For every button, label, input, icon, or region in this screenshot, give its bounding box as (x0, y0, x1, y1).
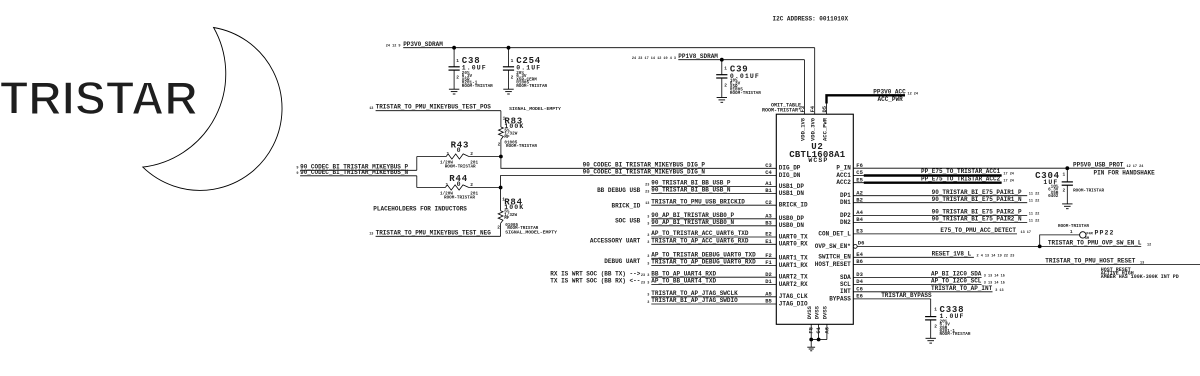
svg-text:UART2_TX: UART2_TX (779, 274, 808, 281)
svg-text:AP_TO_I2C0_SCL: AP_TO_I2C0_SCL (931, 278, 982, 285)
svg-text:23 3: 23 3 (641, 274, 649, 278)
svg-text:C2: C2 (765, 199, 772, 206)
svg-text:SCL: SCL (840, 281, 851, 288)
svg-text:ROOM-TRISTAR: ROOM-TRISTAR (516, 84, 547, 89)
svg-text:90_TRISTAR_BI_E75_PAIR2_P: 90_TRISTAR_BI_E75_PAIR2_P (932, 209, 1022, 216)
pin D2 UART2_TX (651, 276, 776, 278)
svg-text:ROOM-TRISTAR: ROOM-TRISTAR (444, 196, 475, 201)
svg-text:90_CODEC_BI_TRISTAR_MIKEYBUS_N: 90_CODEC_BI_TRISTAR_MIKEYBUS_N (300, 169, 408, 176)
svg-text:SM: SM (1085, 237, 1089, 241)
svg-text:E4: E4 (856, 251, 863, 258)
svg-text:C3: C3 (765, 162, 772, 169)
capacitor C38 (453, 48, 455, 67)
svg-text:I2C ADDRESS: 0011010X: I2C ADDRESS: 0011010X (773, 15, 849, 22)
svg-text:TRISTAR_BI_AP_JTAG_SWDIO: TRISTAR_BI_AP_JTAG_SWDIO (651, 297, 738, 304)
pin C1 DVSS (818, 324, 820, 339)
pin F2 UART1_TX (651, 257, 776, 259)
svg-text:DP2: DP2 (840, 212, 851, 219)
svg-text:USB1_DN: USB1_DN (779, 190, 805, 197)
svg-text:PP3V0_ACC: PP3V0_ACC (873, 88, 906, 95)
svg-text:2: 2 (456, 75, 459, 81)
svg-text:SIGNAL_MODEL-EMPTY: SIGNAL_MODEL-EMPTY (509, 106, 561, 112)
svg-text:ROOM-TRISTAR*: ROOM-TRISTAR* (762, 107, 801, 113)
svg-text:1: 1 (511, 58, 514, 64)
svg-text:TRISTAR_TO_PMU_HOST_RESET: TRISTAR_TO_PMU_HOST_RESET (1045, 258, 1135, 265)
pin D6 OVP_SW_EN* (active low bubble) (853, 245, 857, 249)
svg-text:E3: E3 (856, 228, 863, 235)
svg-text:DVSS: DVSS (813, 305, 820, 319)
svg-text:ACCESSORY UART: ACCESSORY UART (590, 238, 641, 245)
net PP3V0_ACC (thick) (827, 95, 906, 103)
svg-text:B6: B6 (856, 258, 863, 265)
junction at C38 (452, 46, 456, 50)
svg-text:TRISTAR_BYPASS: TRISTAR_BYPASS (881, 292, 932, 299)
wire PP3V0_SDRAM to pin F4 (814, 48, 816, 115)
svg-text:TRISTAR_TO_PMU_OVP_SW_EN_L: TRISTAR_TO_PMU_OVP_SW_EN_L (1048, 240, 1142, 247)
capacitor C254 (508, 48, 510, 67)
pin F6 P_IN (853, 167, 1125, 169)
svg-text:DVSS: DVSS (822, 305, 829, 319)
svg-text:13: 13 (645, 202, 649, 206)
svg-text:TRISTAR_TO_PMU_USB_BRICKID: TRISTAR_TO_PMU_USB_BRICKID (651, 198, 745, 205)
pin B1 USB1_DN (651, 193, 776, 195)
svg-text:P_IN: P_IN (836, 165, 851, 172)
svg-text:PP3V0_SDRAM: PP3V0_SDRAM (403, 41, 443, 48)
pin A5 JTAG_CLK (651, 296, 776, 298)
svg-text:3: 3 (647, 234, 649, 238)
svg-text:DIG_DP: DIG_DP (779, 165, 801, 172)
svg-text:MF: MF (504, 216, 510, 221)
svg-text:11 22: 11 22 (1029, 200, 1040, 204)
svg-text:UART1_RX: UART1_RX (779, 262, 808, 269)
pin E1 UART0_RX (651, 243, 776, 245)
svg-text:OVP_SW_EN*: OVP_SW_EN* (815, 243, 851, 250)
svg-text:RX IS WRT SOC (BB TX) -->: RX IS WRT SOC (BB TX) --> (550, 270, 640, 277)
svg-text:9: 9 (296, 172, 298, 176)
svg-text:D6: D6 (858, 240, 865, 247)
svg-text:PIN FOR HANDSHAKE: PIN FOR HANDSHAKE (1094, 170, 1156, 177)
svg-text:13: 13 (369, 107, 373, 111)
svg-text:PP1V8_SDRAM: PP1V8_SDRAM (678, 53, 718, 60)
svg-text:24 23 17 14 12 10 4 3: 24 23 17 14 12 10 4 3 (632, 57, 676, 61)
svg-text:2: 2 (511, 75, 514, 81)
svg-text:DN1: DN1 (840, 199, 851, 206)
svg-text:UART0_TX: UART0_TX (779, 233, 808, 240)
svg-text:AP_TO_TRISTAR_DEBUG_UART0_TXD: AP_TO_TRISTAR_DEBUG_UART0_TXD (651, 251, 756, 258)
svg-text:2: 2 (934, 323, 937, 329)
svg-text:TRISTAR_TO_PMU_MIKEYBUS_TEST_N: TRISTAR_TO_PMU_MIKEYBUS_TEST_NEG (376, 229, 492, 236)
svg-text:C1: C1 (815, 326, 822, 333)
svg-text:TRISTAR_TO_AP_JTAG_SWCLK: TRISTAR_TO_AP_JTAG_SWCLK (651, 290, 738, 297)
svg-text:D4: D4 (856, 278, 863, 285)
pin E2 UART0_TX (651, 236, 776, 238)
svg-text:0402: 0402 (1048, 194, 1059, 199)
svg-text:2 4 13 14 19 22 23: 2 4 13 14 19 22 23 (977, 254, 1015, 258)
svg-text:9: 9 (296, 167, 298, 171)
svg-text:BB_TO_AP_UART4_RXD: BB_TO_AP_UART4_RXD (651, 270, 716, 277)
svg-text:E1: E1 (765, 238, 772, 245)
svg-text:AP_TO_TRISTAR_ACC_UART6_TXD: AP_TO_TRISTAR_ACC_UART6_TXD (651, 230, 749, 237)
svg-text:3: 3 (647, 294, 649, 298)
svg-text:PP_E75_TO_TRISTAR_ACC2: PP_E75_TO_TRISTAR_ACC2 (921, 175, 1001, 182)
svg-text:3: 3 (647, 262, 649, 266)
svg-text:F4: F4 (809, 105, 816, 112)
svg-text:PP22: PP22 (1095, 230, 1115, 237)
svg-text:D3: D3 (856, 271, 863, 278)
pin D1 UART2_RX (651, 284, 776, 286)
svg-text:AP_TO_BB_UART4_TXD: AP_TO_BB_UART4_TXD (651, 278, 716, 285)
svg-text:DEBUG UART: DEBUG UART (604, 258, 640, 265)
svg-text:BRICK_ID: BRICK_ID (779, 202, 808, 209)
svg-text:E75_TO_PMU_ACC_DETECT: E75_TO_PMU_ACC_DETECT (940, 227, 1016, 234)
svg-text:F1: F1 (765, 259, 772, 266)
svg-text:12: 12 (1147, 243, 1151, 247)
wire DIG_P from R43 junction to chip (501, 157, 776, 169)
svg-text:3: 3 (647, 301, 649, 305)
svg-text:JTAG_CLK: JTAG_CLK (779, 293, 808, 300)
svg-text:2: 2 (470, 182, 473, 188)
svg-text:0: 0 (457, 147, 462, 154)
svg-text:90_TRISTAR_BI_E75_PAIR2_N: 90_TRISTAR_BI_E75_PAIR2_N (932, 216, 1022, 223)
svg-text:E5: E5 (856, 176, 863, 183)
svg-text:F2: F2 (765, 252, 772, 259)
wire test_pos to R83 (500, 111, 502, 127)
svg-text:24 12 9: 24 12 9 (386, 45, 401, 49)
svg-text:INT: INT (840, 288, 851, 295)
svg-text:UART2_RX: UART2_RX (779, 281, 808, 288)
svg-text:SDA: SDA (840, 274, 851, 281)
svg-text:DN2: DN2 (840, 219, 851, 226)
pin A2 DP1 (853, 195, 1027, 197)
pin E4 SWITCH_EN (853, 256, 974, 258)
svg-text:WCSP: WCSP (808, 157, 828, 164)
svg-text:D5: D5 (821, 105, 828, 112)
svg-text:PP_E75_TO_TRISTAR_ACC1: PP_E75_TO_TRISTAR_ACC1 (921, 168, 1001, 175)
svg-text:2: 2 (1062, 188, 1065, 194)
svg-text:1: 1 (447, 151, 450, 157)
IC U2 CBTL1608A1 body (776, 114, 853, 324)
svg-text:A5: A5 (765, 290, 772, 297)
svg-text:VDD_1V8: VDD_1V8 (799, 117, 806, 141)
svg-text:1: 1 (1062, 172, 1065, 178)
svg-text:0: 0 (457, 181, 462, 188)
svg-text:2: 2 (497, 224, 500, 230)
svg-text:UART0_RX: UART0_RX (779, 241, 808, 248)
svg-text:12 24: 12 24 (908, 93, 919, 97)
svg-text:USB0_DP: USB0_DP (779, 215, 805, 222)
svg-text:90_CODEC_BI_TRISTAR_MIKEYBUS_D: 90_CODEC_BI_TRISTAR_MIKEYBUS_DIG_N (583, 169, 706, 176)
junction R44/R84 (499, 186, 503, 190)
svg-text:TRISTAR_TO_AP_DEBUG_UART0_RXD: TRISTAR_TO_AP_DEBUG_UART0_RXD (651, 259, 756, 266)
svg-text:A3: A3 (765, 212, 772, 219)
wire to testpoint PP22 (1040, 235, 1080, 247)
svg-text:A6: A6 (823, 327, 830, 334)
svg-text:C5: C5 (856, 169, 863, 176)
svg-text:E2: E2 (765, 231, 772, 238)
pin A4 DP2 (853, 215, 1027, 217)
svg-text:ROOM-TRISTAR: ROOM-TRISTAR (462, 84, 493, 89)
svg-text:13: 13 (369, 233, 373, 237)
svg-text:DIG_DN: DIG_DN (779, 172, 801, 179)
svg-text:D2: D2 (765, 271, 772, 278)
wire mikeybus_p riser (416, 157, 418, 171)
wire mikeybus_n riser (416, 176, 418, 188)
svg-text:90_TRISTAR_BI_BB_USB_N: 90_TRISTAR_BI_BB_USB_N (651, 187, 731, 194)
pin F1 UART1_RX (651, 265, 776, 267)
svg-text:D1: D1 (765, 278, 772, 285)
svg-text:TX IS WRT SOC (BB RX) <--: TX IS WRT SOC (BB RX) <-- (550, 278, 640, 285)
junction at C304 (1065, 166, 1069, 170)
svg-text:MF: MF (504, 135, 510, 140)
svg-text:23: 23 (645, 183, 649, 187)
net PP_E75_TO_TRISTAR_ACC2 (thick) (864, 181, 1002, 183)
svg-text:ROOM-TRISTAR: ROOM-TRISTAR (730, 91, 761, 96)
resistor R44 (445, 185, 469, 190)
svg-text:90_TRISTAR_BI_BB_USB_P: 90_TRISTAR_BI_BB_USB_P (651, 180, 731, 187)
svg-text:TRISTAR_TO_AP_ACC_UART6_RXD: TRISTAR_TO_AP_ACC_UART6_RXD (651, 237, 749, 244)
ground under U2 (810, 340, 812, 348)
svg-text:B2: B2 (856, 196, 863, 203)
svg-text:90_TRISTAR_BI_E75_PAIR1_N: 90_TRISTAR_BI_E75_PAIR1_N (932, 196, 1022, 203)
svg-text:11 22: 11 22 (1029, 220, 1040, 224)
svg-text:HOST_RESET: HOST_RESET (815, 261, 851, 268)
svg-text:VDD_3V0: VDD_3V0 (810, 118, 817, 141)
pin E6 BYPASS (853, 298, 930, 300)
svg-text:TRISTAR_TO_PMU_MIKEYBUS_TEST_P: TRISTAR_TO_PMU_MIKEYBUS_TEST_POS (376, 104, 492, 111)
svg-text:UART1_TX: UART1_TX (779, 255, 808, 262)
svg-text:ROOM-TRISTAR: ROOM-TRISTAR (1073, 189, 1104, 194)
svg-text:23: 23 (645, 191, 649, 195)
svg-text:2: 2 (498, 141, 501, 147)
svg-text:13: 13 (1140, 262, 1144, 266)
capacitor C338 (930, 316, 932, 318)
svg-text:13 17: 13 17 (1021, 231, 1032, 235)
svg-text:BRICK_ID: BRICK_ID (611, 202, 640, 209)
svg-text:90_AP_BI_TRISTAR_USB0_N: 90_AP_BI_TRISTAR_USB0_N (651, 219, 734, 226)
svg-text:11 22: 11 22 (1029, 193, 1040, 197)
svg-text:3: 3 (647, 241, 649, 245)
net PP_E75_TO_TRISTAR_ACC1 (thick) (864, 174, 1002, 176)
svg-text:P4M: P4M (1086, 232, 1092, 236)
svg-text:RESET_1V8_L: RESET_1V8_L (932, 250, 972, 257)
svg-text:1: 1 (1070, 229, 1073, 235)
svg-text:PP5V0_USB_PROT: PP5V0_USB_PROT (1073, 161, 1124, 168)
resistor R43 (446, 154, 469, 159)
svg-text:USB0_DN: USB0_DN (779, 222, 805, 229)
svg-text:PLACEHOLDERS FOR INDUCTORS: PLACEHOLDERS FOR INDUCTORS (373, 206, 467, 213)
svg-text:1: 1 (456, 58, 459, 64)
crescent moon logo (143, 28, 282, 191)
svg-text:3 13: 3 13 (995, 289, 1003, 293)
svg-text:12 17 24: 12 17 24 (1127, 165, 1144, 169)
svg-text:B1: B1 (765, 187, 772, 194)
svg-text:B3: B3 (765, 219, 772, 226)
pin A1 USB1_DP (651, 185, 776, 187)
svg-text:90_CODEC_BI_TRISTAR_MIKEYBUS_D: 90_CODEC_BI_TRISTAR_MIKEYBUS_DIG_P (583, 161, 706, 168)
pin C2 BRICK_ID (651, 204, 776, 206)
svg-text:A2: A2 (856, 189, 863, 196)
svg-text:F3: F3 (799, 105, 806, 112)
pin B3 USB0_DN (651, 225, 776, 227)
svg-text:A4: A4 (856, 209, 863, 216)
pin A3 USB0_DP (651, 218, 776, 220)
svg-text:ACC1: ACC1 (836, 172, 851, 179)
svg-text:F6: F6 (856, 162, 863, 169)
svg-text:SIGNAL_MODEL-EMPTY: SIGNAL_MODEL-EMPTY (505, 230, 557, 236)
svg-text:BYPASS: BYPASS (829, 295, 851, 302)
pin E3 CON_DET_L (853, 233, 1017, 235)
pin D3 SDA (853, 276, 981, 278)
svg-text:23 3: 23 3 (641, 281, 649, 285)
junction to testpoint PP22 (1038, 245, 1042, 249)
svg-text:TRISTAR: TRISTAR (0, 72, 198, 124)
svg-text:USB1_DP: USB1_DP (779, 183, 805, 190)
svg-text:3 13 14 15: 3 13 14 15 (984, 274, 1005, 278)
svg-text:ROOM-TRISTAR: ROOM-TRISTAR (940, 332, 971, 337)
svg-text:3: 3 (647, 223, 649, 227)
testpoint PP22 (1080, 232, 1086, 238)
svg-text:3: 3 (647, 255, 649, 259)
svg-text:ROOM-TRISTAR: ROOM-TRISTAR (1058, 224, 1089, 229)
wire DVSS bus (811, 339, 827, 341)
svg-text:C6: C6 (856, 285, 863, 292)
resistor R84 (500, 188, 502, 211)
junction R83/R43 (499, 155, 503, 159)
svg-text:DP1: DP1 (840, 192, 851, 199)
pin A6 DVSS (826, 324, 828, 339)
svg-text:17 24: 17 24 (1003, 173, 1014, 177)
svg-text:AP_BI_I2C0_SDA: AP_BI_I2C0_SDA (931, 271, 982, 278)
pin B6 HOST_RESET (853, 264, 1200, 266)
svg-text:1: 1 (724, 66, 727, 72)
capacitor C304 (1066, 168, 1068, 182)
svg-text:B4: B4 (856, 216, 863, 223)
wire BYPASS down to C338 (930, 299, 932, 317)
svg-text:SWITCH_EN: SWITCH_EN (818, 254, 851, 261)
svg-text:A1: A1 (765, 180, 772, 187)
svg-text:ACC_PWR: ACC_PWR (821, 117, 828, 141)
capacitor C39 (721, 60, 723, 75)
svg-text:2: 2 (470, 151, 473, 157)
svg-text:TRISTAR_TO_AP_INT: TRISTAR_TO_AP_INT (931, 285, 993, 292)
pin B2 DN1 (853, 202, 1027, 204)
svg-text:1: 1 (934, 306, 937, 312)
svg-text:BB DEBUG USB: BB DEBUG USB (597, 187, 641, 194)
svg-text:11 22: 11 22 (1029, 213, 1040, 217)
svg-text:17 24: 17 24 (1003, 180, 1014, 184)
wire DIG_N from R44 junction to chip (501, 176, 777, 188)
pin C5 ACC1 (853, 175, 1001, 177)
pin E5 ACC2 (853, 182, 1001, 184)
svg-text:B5: B5 (765, 298, 772, 305)
svg-text:AMBER HAS 100K-300K INT PD: AMBER HAS 100K-300K INT PD (1101, 274, 1179, 280)
junction at C254 (507, 46, 511, 50)
pin F5 DVSS (810, 324, 812, 339)
svg-text:E6: E6 (856, 293, 863, 300)
pin B5 JTAG_DIO (651, 303, 776, 305)
svg-text:C4: C4 (765, 169, 772, 176)
svg-text:JTAG_DIO: JTAG_DIO (779, 300, 808, 307)
svg-text:CON_DET_L: CON_DET_L (818, 230, 851, 237)
svg-text:ROOM-TRISTAR: ROOM-TRISTAR (445, 165, 476, 170)
svg-text:ROOM-TRISTAR: ROOM-TRISTAR (506, 144, 537, 149)
svg-text:ACC2: ACC2 (836, 179, 851, 186)
svg-text:2: 2 (724, 83, 727, 89)
svg-text:SOC USB: SOC USB (615, 218, 641, 225)
wire PP1V8_SDRAM to pin F3 (804, 60, 806, 114)
resistor R83 (499, 127, 504, 140)
pin B4 DN2 (853, 222, 1027, 224)
svg-text:DVSS: DVSS (806, 305, 813, 319)
svg-text:3: 3 (647, 216, 649, 220)
svg-text:F5: F5 (808, 326, 815, 333)
pin C6 INT (853, 291, 992, 293)
svg-text:90_AP_BI_TRISTAR_USB0_P: 90_AP_BI_TRISTAR_USB0_P (651, 212, 734, 219)
pin D4 SCL (853, 284, 981, 286)
svg-text:ACC_PWR: ACC_PWR (878, 96, 904, 103)
svg-text:90_TRISTAR_BI_E75_PAIR1_P: 90_TRISTAR_BI_E75_PAIR1_P (932, 189, 1022, 196)
svg-text:1: 1 (446, 182, 449, 188)
junction at C39 (720, 58, 724, 62)
